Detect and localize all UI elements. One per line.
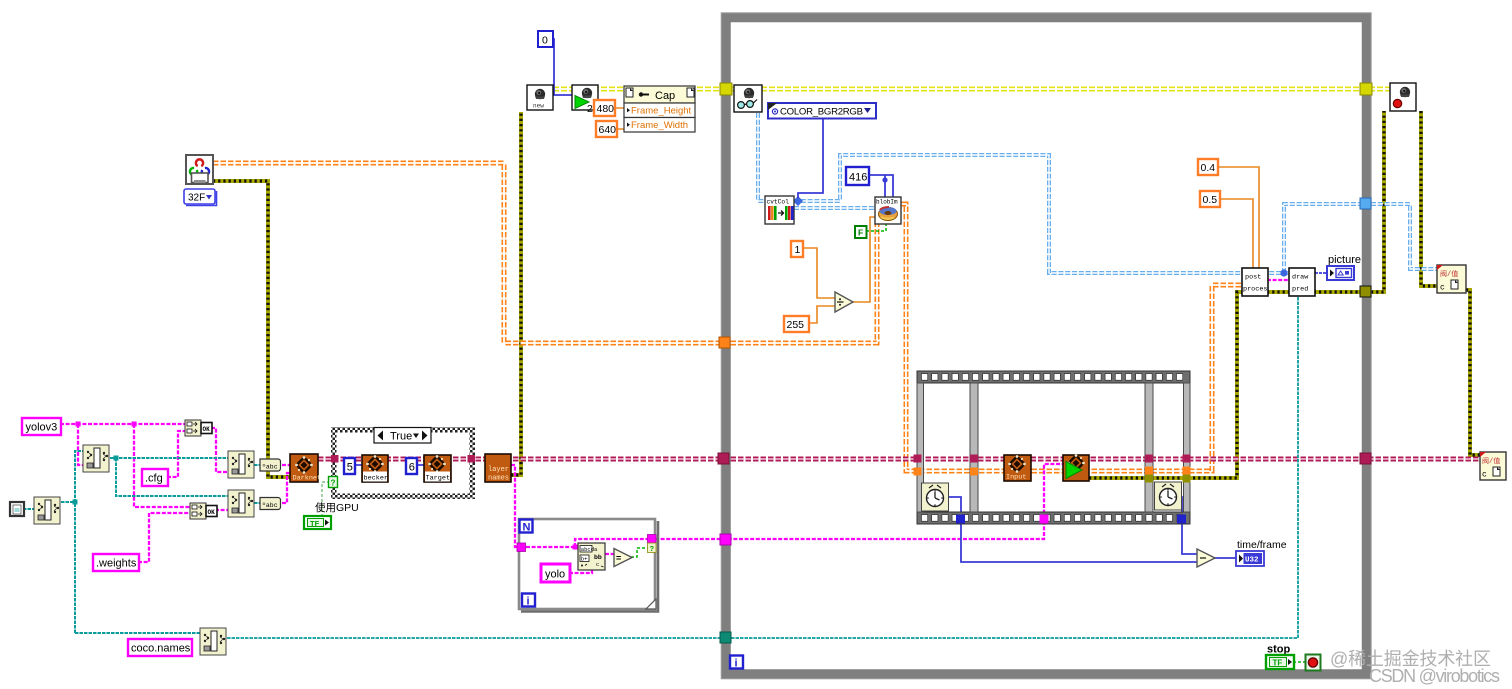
tunnel case maroon left	[331, 455, 339, 463]
svg-text:Target: Target	[426, 475, 450, 483]
node constant 6	[406, 458, 417, 474]
node for-loop i	[522, 594, 535, 608]
tunnel olive right	[1360, 286, 1371, 297]
wire magenta match to equals	[605, 553, 614, 555]
sequence tunnels	[914, 455, 1191, 524]
node constant 5	[344, 458, 355, 474]
wire olive thresh1 to thresh2	[1466, 290, 1480, 455]
wire blue 416 to blob	[869, 175, 893, 198]
node weights constant	[93, 554, 139, 571]
wire blue minus to U32	[1214, 557, 1237, 559]
node minus triangle	[1197, 549, 1215, 567]
node yolov3 constant	[22, 418, 61, 435]
node constant 0.4	[1198, 159, 1218, 175]
wire green TF stop	[1293, 661, 1306, 663]
wire orange chain RGB-node to blob bottom	[213, 163, 877, 343]
node constant 255	[784, 316, 809, 332]
node clock2	[1155, 482, 1182, 510]
svg-text:.cfg: .cfg	[145, 473, 163, 485]
svg-text:N: N	[523, 522, 531, 534]
node camera new	[527, 85, 553, 110]
svg-text:becker: becker	[364, 475, 388, 483]
wire magenta yolov3 main	[60, 424, 190, 507]
wire magenta post to draw	[1267, 279, 1289, 281]
wire blue clock2 to minus	[1178, 497, 1197, 554]
svg-text:blobIm: blobIm	[876, 199, 898, 206]
svg-text:0.5: 0.5	[1203, 194, 1218, 206]
node strip-path1	[83, 445, 109, 472]
node coco.names constant	[128, 639, 192, 656]
wire cyan eyeglass to cvtCol	[758, 113, 765, 201]
svg-text:c: c	[1440, 284, 1445, 293]
svg-text:new: new	[533, 103, 544, 110]
node yolo string constant	[541, 564, 570, 582]
wire magenta abc1 to Darknet	[282, 464, 291, 466]
node junction cyan dot draw-pred	[1280, 269, 1287, 276]
svg-text:layer: layer	[488, 466, 509, 474]
svg-text:ºabc: ºabc	[262, 464, 278, 471]
node picture indicator	[1327, 266, 1354, 280]
svg-text:c: c	[1482, 471, 1487, 480]
wire teal node1 to buildpaths	[110, 458, 228, 496]
svg-text:TF: TF	[1273, 659, 1283, 668]
wire cyan cvtCol out to post/draw	[794, 155, 1289, 273]
tunnel maroon left	[718, 453, 729, 464]
tunnel cyan right	[1360, 198, 1371, 209]
tunnel magenta left	[720, 534, 731, 545]
svg-text:CSDN @virobotics: CSDN @virobotics	[1369, 666, 1500, 686]
svg-text:6: 6	[409, 462, 415, 474]
sequence sprocket holes	[922, 374, 1183, 522]
svg-text:post: post	[1245, 274, 1261, 282]
wire cyan cvtCol to blob	[794, 206, 875, 210]
node layer-names	[485, 454, 511, 483]
wire thin-orange 0.4	[1217, 167, 1259, 269]
tunnel orange left	[719, 337, 730, 348]
node threshold1	[1437, 265, 1466, 293]
svg-text:阀/值: 阀/值	[1482, 456, 1500, 466]
svg-text:阀/值: 阀/值	[1440, 269, 1458, 279]
svg-text:c: c	[596, 561, 599, 568]
node match pattern	[578, 543, 605, 570]
wire teal main left cluster	[61, 451, 200, 633]
svg-text:Frame_Width: Frame_Width	[631, 120, 688, 131]
svg-text:480: 480	[597, 103, 615, 115]
svg-text:OK: OK	[203, 426, 211, 433]
svg-text:stop: stop	[1267, 644, 1291, 656]
node draw-pred	[1289, 268, 1315, 296]
wire magenta concat1 to buildpath1	[211, 428, 228, 472]
node camera eyeglass read	[734, 85, 762, 112]
svg-text:yolov3: yolov3	[26, 422, 58, 434]
structure while-loop border	[721, 13, 1371, 679]
node constant 0	[538, 31, 553, 47]
svg-text:U32: U32	[1245, 557, 1259, 565]
node Target	[424, 455, 451, 483]
node read-names	[200, 628, 226, 655]
svg-text:pred: pred	[1292, 286, 1308, 294]
node camera play	[572, 85, 598, 110]
node while-loop i	[730, 656, 743, 670]
node equals	[614, 549, 632, 567]
svg-text:416: 416	[849, 172, 867, 184]
node post-process	[1242, 268, 1268, 296]
svg-text:names: names	[488, 475, 509, 483]
node path-to-string2	[260, 498, 281, 510]
svg-text:=: =	[616, 553, 621, 563]
node junction teal dots	[73, 500, 78, 505]
svg-text:Cap: Cap	[655, 90, 675, 102]
svg-text:Frame_Height: Frame_Height	[631, 106, 692, 117]
svg-text:b+: b+	[581, 556, 588, 563]
node forward play	[1063, 454, 1089, 481]
wire magenta weights	[138, 513, 190, 562]
svg-text:F: F	[858, 228, 863, 238]
node constant 480	[587, 100, 615, 116]
node cvtCol	[765, 196, 794, 224]
tunnel case maroon right	[468, 455, 476, 463]
wire blue 5 and 6 stubs	[355, 464, 424, 466]
svg-text:cvtCol: cvtCol	[767, 199, 790, 206]
node 32F combo	[184, 189, 217, 206]
wire blue clock1 to minus	[949, 497, 1197, 562]
tunnel maroon right	[1360, 453, 1371, 464]
node becker	[362, 455, 388, 483]
svg-text:bb: bb	[594, 554, 602, 561]
node Cap property	[624, 86, 695, 132]
svg-text:i: i	[735, 658, 738, 670]
node divide triangle	[835, 292, 853, 312]
node constant 640	[596, 121, 617, 137]
node junction magenta dots	[76, 422, 81, 427]
svg-text:640: 640	[599, 124, 617, 136]
svg-text:?: ?	[331, 479, 336, 488]
svg-text:0: 0	[542, 35, 548, 47]
structure case border	[331, 427, 475, 499]
svg-text:2: 2	[587, 103, 593, 115]
svg-text:TF: TF	[310, 519, 320, 528]
wire cyan draw-pred branch out of loop	[1284, 204, 1362, 273]
wire blue 0 to play-camera	[549, 39, 572, 95]
node TF stop button	[1266, 655, 1294, 669]
wire teal names to draw-pred	[227, 295, 1298, 638]
wire green equals to cond tunnel	[631, 548, 648, 557]
node clock1	[922, 483, 949, 511]
node constant 0.5	[1200, 191, 1220, 207]
tunnel yellow left	[720, 83, 732, 95]
wire blue combo to cvtCol	[798, 118, 823, 198]
svg-text:True: True	[390, 431, 412, 443]
wire olive play-out to close-camera	[1089, 111, 1384, 478]
svg-text:?: ?	[650, 544, 655, 553]
node stop terminal	[1306, 655, 1321, 671]
svg-text:draw: draw	[1292, 274, 1309, 282]
node Input	[1004, 455, 1031, 482]
wire magenta cfg	[167, 431, 185, 477]
wire magenta concat2 to buildpath2	[215, 509, 228, 511]
svg-text:time/frame: time/frame	[1237, 539, 1287, 551]
svg-text:0.4: 0.4	[1201, 162, 1216, 174]
node camera close	[1390, 83, 1416, 111]
svg-text:.weights: .weights	[96, 558, 137, 570]
tunnel for-loop out with conditional	[648, 535, 657, 554]
structure case selector label	[374, 428, 431, 444]
wire teal buildpath outs	[254, 465, 260, 503]
svg-text:255: 255	[787, 319, 805, 331]
tunnel teal left	[720, 632, 731, 643]
node concat2	[190, 503, 217, 519]
svg-text:Darknet: Darknet	[293, 475, 322, 483]
structure for-loop border	[519, 519, 658, 612]
wire blue draw to picture	[1315, 272, 1327, 274]
svg-text:Input: Input	[1006, 474, 1026, 482]
tunnel yellow right	[1360, 83, 1372, 95]
wire olive layer-names up to new-node	[511, 112, 521, 475]
wire thin-orange divide cluster	[802, 217, 875, 323]
node constant F	[855, 226, 867, 238]
svg-text:i: i	[527, 596, 530, 608]
wire thin-orange 480 640 stubs	[615, 108, 627, 129]
wire camera-ref yellow chain top	[553, 87, 1390, 92]
wire magenta layer-names to for-loop	[511, 465, 522, 547]
node COLOR_BGR2RGB combo	[768, 103, 876, 119]
node TF GPU constant	[304, 516, 331, 529]
node threshold2	[1480, 452, 1506, 480]
node path-to-string1	[260, 459, 281, 471]
node strip-path0	[34, 497, 60, 524]
node build-path1	[228, 451, 254, 478]
wire green F to blob	[866, 224, 886, 231]
node for-loop N	[520, 520, 533, 534]
node constant 1	[791, 241, 803, 257]
node U32 indicator	[1236, 551, 1264, 566]
svg-text:picture: picture	[1328, 254, 1361, 266]
node Darknet	[290, 454, 321, 483]
svg-text:1: 1	[795, 244, 801, 256]
wire olive image RGB-node to Darknet	[213, 181, 291, 477]
node cfg constant	[142, 469, 168, 486]
svg-text:ºabc: ºabc	[262, 502, 278, 509]
svg-text:yolo: yolo	[545, 569, 565, 581]
wire teal file to node0	[23, 508, 34, 510]
wire olive close-camera to thresh1	[1421, 111, 1437, 286]
wire green TF GPU to case	[322, 482, 329, 517]
svg-text:使用GPU: 使用GPU	[315, 501, 359, 514]
tunnel for-loop magenta in	[517, 543, 526, 552]
svg-text:5: 5	[347, 462, 353, 474]
node constant 416	[846, 167, 869, 185]
node RGB imread top-left	[186, 155, 213, 184]
wire thin-orange 0.5	[1220, 199, 1253, 269]
node junction blue diamond cvtCol	[793, 196, 803, 206]
svg-text:abcd: abcd	[581, 546, 594, 553]
wire orange chain blob to Input/play to post-process	[901, 204, 1243, 471]
svg-text:COLOR_BGR2RGB: COLOR_BGR2RGB	[780, 107, 863, 118]
node build-path2	[228, 490, 254, 517]
svg-text:coco.names: coco.names	[131, 643, 191, 655]
tunnel case selector	[329, 477, 338, 488]
wire cyan tunnel to thresh1	[1371, 204, 1437, 269]
node concat1	[185, 420, 212, 436]
wire magenta inside for-loop	[526, 539, 650, 573]
wire magenta abc2 to Darknet	[282, 473, 291, 503]
svg-text:OK: OK	[208, 509, 216, 516]
wire magenta for-loop to play node	[655, 464, 1063, 539]
svg-text:proces: proces	[1243, 286, 1267, 294]
node file constant small	[10, 502, 24, 516]
node blobImage	[875, 197, 901, 224]
structure flat-sequence film border	[917, 371, 1190, 524]
wire maroon net main horizontal	[318, 457, 1480, 462]
svg-text:32F: 32F	[188, 193, 205, 204]
